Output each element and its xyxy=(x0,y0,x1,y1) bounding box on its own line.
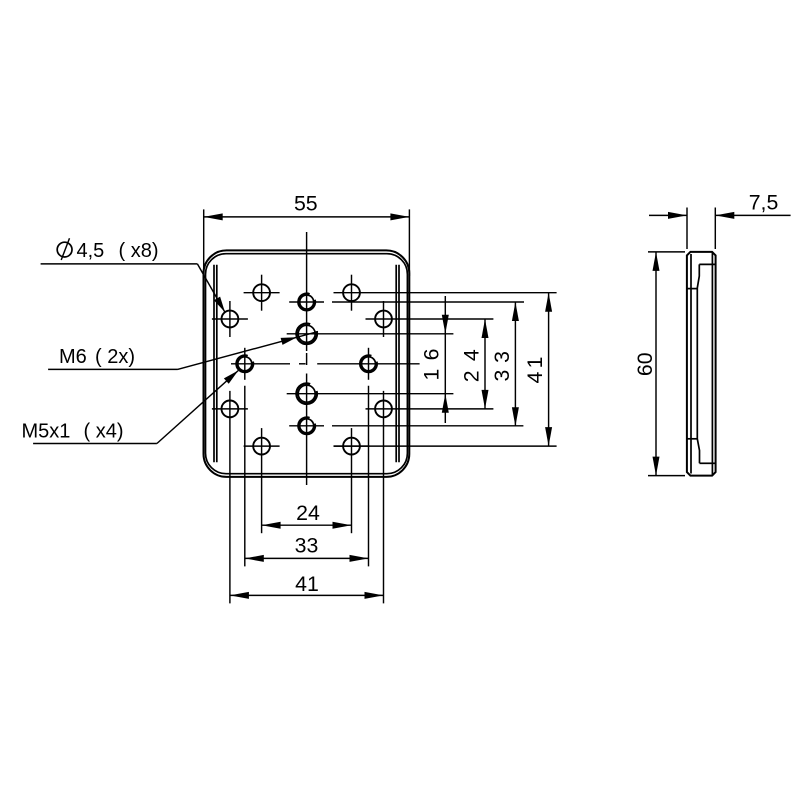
dimension 55 xyxy=(203,209,205,276)
leader M5x1 xyxy=(33,443,157,445)
dimension 41 vertical xyxy=(548,293,550,446)
dimension 33 vertical xyxy=(514,302,516,426)
svg-text:( x8): ( x8) xyxy=(119,240,159,262)
leader D4.5 xyxy=(41,263,198,265)
svg-text:60: 60 xyxy=(633,352,657,376)
dimension 41 bottom xyxy=(230,594,384,596)
vertical centerline front view xyxy=(306,232,308,351)
side view left inner line xyxy=(690,254,692,474)
side view step contour xyxy=(697,264,699,463)
dimension 60 xyxy=(648,251,685,253)
svg-text:M6: M6 xyxy=(59,346,87,368)
plate front view outer outline xyxy=(204,250,410,477)
side view left tick bottom xyxy=(687,438,697,440)
ext line row top (41) xyxy=(334,292,557,294)
side view bottom connector xyxy=(700,462,716,464)
dimension 24 vertical xyxy=(484,319,486,409)
crosshair hole8 xyxy=(334,445,370,447)
ext line M6 top (16) xyxy=(287,333,454,335)
crosshair hole6 xyxy=(383,391,385,604)
horizontal centerline front view xyxy=(231,363,290,365)
svg-text:M5x1: M5x1 xyxy=(22,421,71,443)
svg-text:( 2x): ( 2x) xyxy=(95,346,135,368)
ext line M6 bottom (16) xyxy=(287,393,454,395)
crosshair hole4 xyxy=(383,301,385,337)
dimension 24 bottom xyxy=(262,524,352,526)
tapped hole M6 #2 xyxy=(298,385,315,402)
svg-text:33: 33 xyxy=(295,534,319,558)
crosshair hole7 xyxy=(244,445,280,447)
crosshair hole1 xyxy=(244,292,280,294)
plate front view inner chamfer outline xyxy=(206,254,408,474)
svg-text:41: 41 xyxy=(523,357,547,384)
svg-text:16: 16 xyxy=(420,349,444,381)
label D4.5 x8 xyxy=(57,242,72,257)
hole D4.5 #6 xyxy=(375,401,392,418)
crosshair hole5 xyxy=(212,408,248,410)
svg-text:24: 24 xyxy=(460,349,484,382)
svg-text:55: 55 xyxy=(294,192,318,216)
crosshair hole3 xyxy=(212,318,248,320)
crosshair hole2 xyxy=(351,275,353,311)
dimension 16 xyxy=(444,296,446,423)
ext line row bottom (41) xyxy=(334,445,557,447)
dimension 33 bottom xyxy=(245,557,369,559)
svg-text:( x4): ( x4) xyxy=(84,421,124,443)
hole D4.5 #7 xyxy=(253,438,270,455)
M5 right hole crosshair/ext xyxy=(368,348,370,380)
ext line M5 top (33) xyxy=(289,301,324,303)
tapped hole M5x1 #3 xyxy=(238,357,252,371)
tapped hole M5x1 #2 xyxy=(300,419,314,433)
hole D4.5 #4 xyxy=(375,311,392,328)
tapped hole M5x1 #4 xyxy=(362,357,376,371)
svg-text:4,5: 4,5 xyxy=(77,240,105,262)
hole D4.5 #8 xyxy=(343,438,360,455)
side view left tick top xyxy=(687,288,697,290)
plate left side step lines xyxy=(213,265,215,463)
svg-text:41: 41 xyxy=(295,572,319,596)
hole D4.5 #2 xyxy=(343,284,360,301)
tapped hole M6 #1 xyxy=(298,325,315,342)
ext line M5 bottom (33) xyxy=(289,425,324,427)
plate right side step lines xyxy=(395,265,397,463)
svg-text:24: 24 xyxy=(296,501,320,525)
svg-text:33: 33 xyxy=(490,351,514,382)
hole D4.5 #3 xyxy=(222,311,239,328)
ext line row2 (24) xyxy=(366,318,494,320)
hole D4.5 #5 xyxy=(222,401,239,418)
hole D4.5 #1 xyxy=(253,284,270,301)
dimension 7.5 xyxy=(686,208,688,250)
svg-text:7,5: 7,5 xyxy=(749,191,779,215)
tapped hole M5x1 #1 xyxy=(300,295,314,309)
side view right inner line xyxy=(711,253,713,475)
leader M6 xyxy=(48,368,177,370)
side view top connector xyxy=(699,263,715,265)
M5 left hole crosshair/ext xyxy=(244,348,246,380)
side view outer outline xyxy=(687,252,716,476)
ext line row3 (24) xyxy=(366,408,494,410)
